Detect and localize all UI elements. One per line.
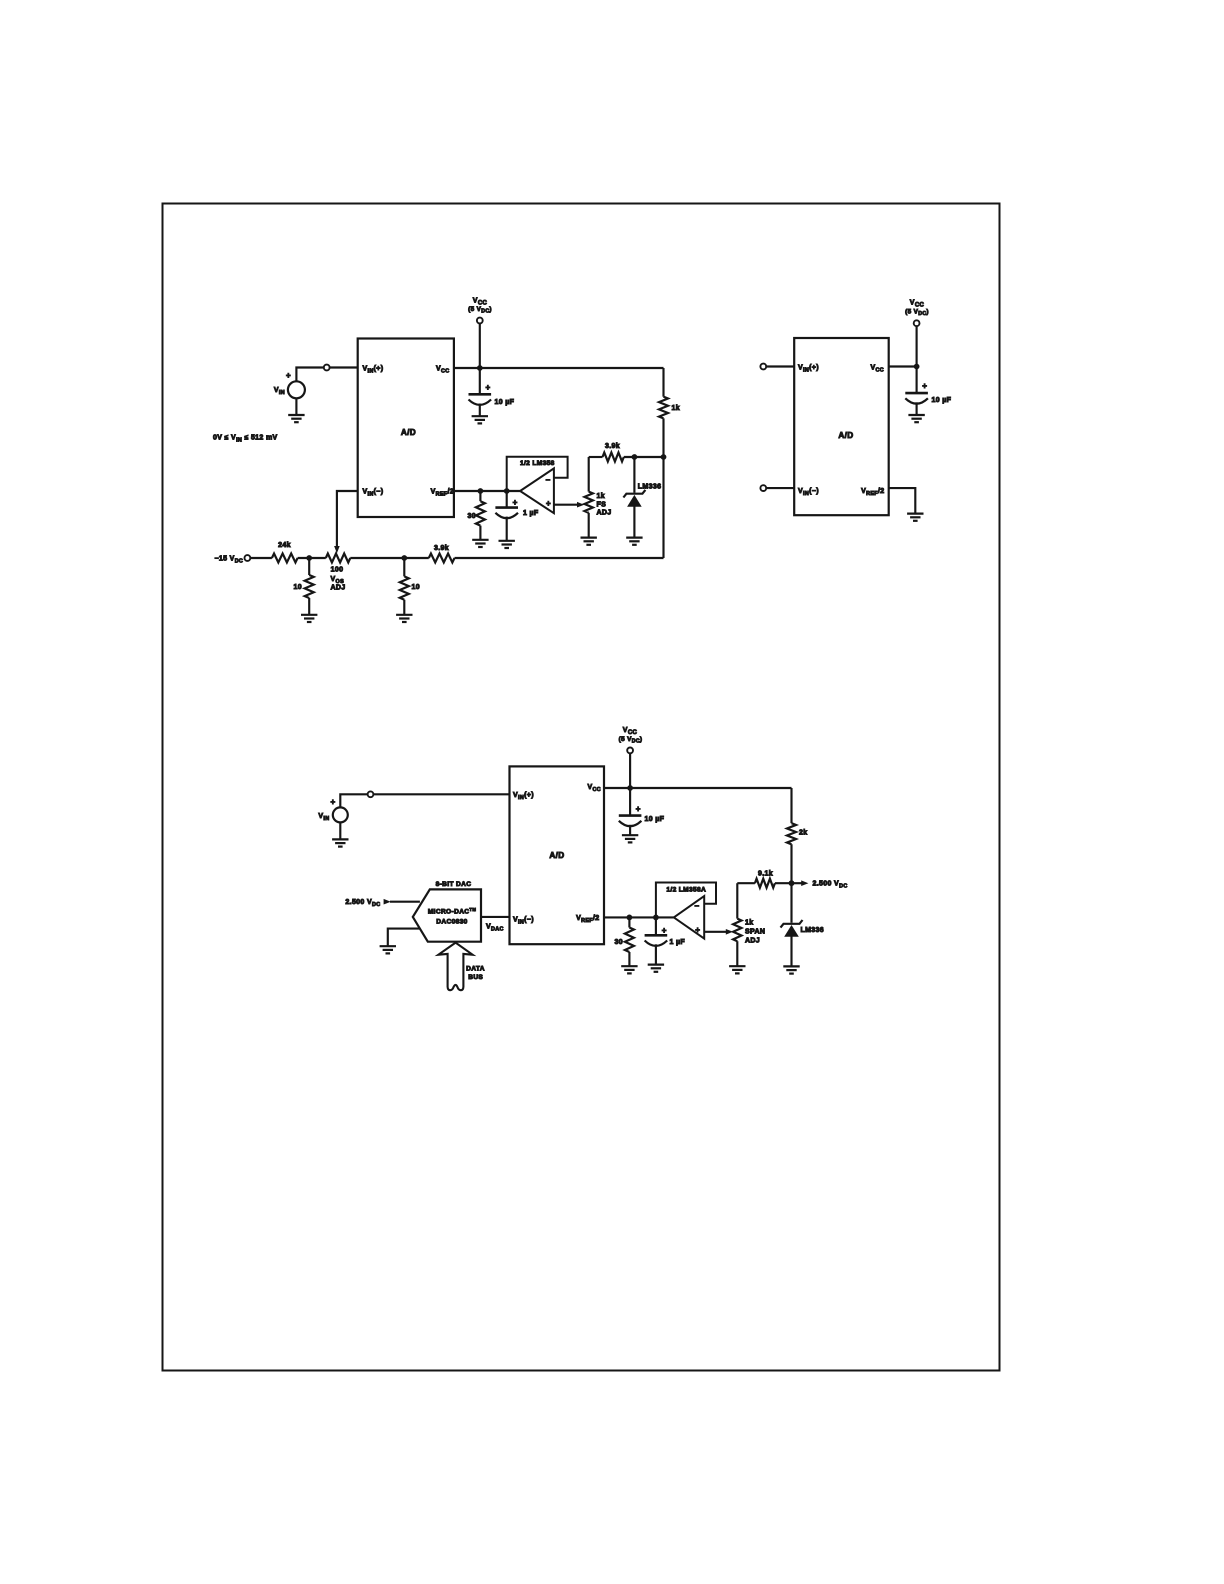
DATA BUS arrow [438,943,472,991]
wire source to ground (c3) [339,822,341,839]
A/D converter U1 (circuit 1) [358,339,454,518]
capacitor C5 1uF [655,917,657,935]
source VIN (circuit 1) [288,381,305,398]
source VIN (circuit 3) [333,807,348,822]
resistor R6 10 (left) [308,558,310,575]
svg-text:−: − [545,476,550,485]
ground below D1 [626,536,642,538]
ground below VIN source (c3) [332,838,348,840]
svg-text:DAC0830: DAC0830 [436,918,467,925]
svg-text:30: 30 [615,939,624,946]
svg-text:10 µF: 10 µF [645,816,665,823]
svg-text:3.9k: 3.9k [434,545,449,552]
svg-text:1/2 LM358: 1/2 LM358 [520,460,555,467]
svg-text:24k: 24k [278,542,291,549]
svg-text:MICRO-DACTM: MICRO-DACTM [428,907,477,915]
svg-text:+: + [286,371,291,380]
ground below R6 [301,614,317,616]
svg-text:ADJ: ADJ [331,584,346,591]
resistor R2 30 [479,491,481,501]
resistor R5 24k [272,554,298,563]
junction left 10-ohm node [306,555,312,561]
svg-text:DATA: DATA [466,966,485,973]
capacitor C1 10uF [469,393,492,396]
svg-text:LM336: LM336 [638,483,662,490]
wire VDAC to U4 VIN(-) [481,916,510,918]
wire VREF/2 to op-amp [454,490,520,492]
junction 2.500V node [789,880,795,886]
zener D2 LM336 [781,920,803,928]
wire U3 VIN(-) [766,487,794,489]
junction LM336 node [632,454,638,460]
wire source to ground [295,398,297,415]
U2 output wire to FS pot wiper [554,504,579,506]
U3 VIN(-) terminal [760,485,766,491]
svg-text:+: + [695,925,700,934]
bottom wire (circuit 1) [250,557,272,559]
wire FS node to rail [589,456,603,458]
svg-text:+: + [330,798,335,807]
ground below C5 [648,963,664,965]
U3 VIN(+) terminal [760,364,766,370]
op-amp U2 feedback box [507,457,568,491]
potentiometer R13 1k SPAN ADJ [736,883,738,918]
ground below R3 [581,536,597,538]
svg-text:10 µF: 10 µF [495,399,515,406]
junction VCC node (c3) [627,785,633,791]
svg-text:+: + [662,926,667,935]
svg-text:A/D: A/D [549,851,564,860]
ground below R8 [396,614,412,616]
DAC ground stub wire [388,929,420,947]
VCC terminal (circuit 3) [627,748,633,754]
wire VCC terminal down (c2) [916,326,918,393]
junction VCC/cap node [477,365,483,371]
junction 30-ohm node [478,488,484,494]
arrow to 2.500 VDC output [792,882,802,884]
svg-text:1/2 LM358A: 1/2 LM358A [666,887,706,894]
ground below C4 [622,834,638,836]
op-amp U5 1/2 LM358A triangle [674,896,704,939]
-15VDC terminal [245,555,251,561]
wire VCC terminal down (c3) [629,753,631,815]
svg-text:10: 10 [294,584,303,591]
wire terminal to U4 VIN(+) [373,793,509,795]
ground below R13 [729,965,745,967]
ground below C1 [472,415,488,417]
wire terminal to VIN(+) pin [330,366,358,368]
wire VCC terminal down [479,323,481,394]
arrow 2.500 VDC into DAC [384,899,391,905]
junction rail node [661,454,667,460]
svg-text:1k: 1k [745,919,754,926]
ground below C3 [908,414,924,416]
junction 30-ohm node (c3) [627,915,633,921]
page border frame [163,204,1000,1371]
resistor R4 3.9k (upper) [603,453,624,462]
svg-text:3.9k: 3.9k [605,443,620,450]
svg-text:8-BIT DAC: 8-BIT DAC [436,881,472,888]
potentiometer R3 1k FS ADJ [588,457,590,492]
junction right 10-ohm node [401,555,407,561]
zener D1 LM336 [633,457,635,493]
ground below D2 [783,965,799,967]
capacitor C2 1uF [506,491,508,508]
svg-text:LM336: LM336 [801,927,825,934]
wire U4 VCC pin to rail [604,787,792,789]
capacitor C3 10uF [905,392,928,395]
svg-text:1k: 1k [672,405,681,412]
VCC terminal (circuit 1) [477,318,483,324]
svg-text:+: + [636,804,641,813]
svg-text:10: 10 [412,584,421,591]
resistor R12 30 [628,917,630,927]
wire VIN(-) to VOS wiper [337,491,358,547]
svg-text:A/D: A/D [401,428,416,437]
right rail wire (circuit 1) [662,368,664,397]
ground below R12 [621,965,637,967]
ground below C2 [499,540,515,542]
svg-text:10 µF: 10 µF [932,397,952,404]
resistor R11 9.1k [737,882,755,884]
ground below R2 [472,539,488,541]
junction VCC node (c2) [914,364,920,370]
svg-text:BUS: BUS [468,974,483,981]
wire U3 VIN(+) [766,365,794,367]
U5 output wire to SPAN pot wiper [704,931,726,933]
ground below VREF/2 (c2) [907,512,923,514]
wire VCC pin to right rail [454,367,664,369]
wire U3 VREF/2 to ground [889,488,916,513]
input terminal circle (circuit 3) [368,791,374,797]
svg-text:30: 30 [468,513,477,520]
svg-text:SPAN: SPAN [745,928,765,935]
input terminal circle (circuit 1) [324,365,330,371]
svg-text:9.1k: 9.1k [758,871,773,878]
svg-text:2k: 2k [799,830,808,837]
svg-text:+: + [486,383,491,392]
svg-text:FS: FS [597,501,607,508]
potentiometer R7 100 VOS ADJ [326,554,351,563]
svg-text:1 µF: 1 µF [523,510,539,517]
junction 1uF/feedback node [504,488,510,494]
ground below DAC stub [380,945,396,947]
ground below VIN source [288,414,304,416]
svg-text:+: + [513,498,518,507]
svg-text:ADJ: ADJ [745,937,760,944]
wire terminal to source [296,368,323,382]
DAC U6 outline [413,889,481,941]
svg-text:1 µF: 1 µF [670,939,686,946]
resistor R9 3.9k (lower) [429,554,455,563]
svg-text:100: 100 [331,567,344,574]
wire U4 VREF/2 to op-amp [604,916,674,918]
A/D converter U3 (circuit 2) [794,338,889,515]
wire U3 VCC pin [889,365,917,367]
right rail (circuit 3) [790,788,792,823]
resistor R1 1k [659,397,668,419]
VCC terminal (circuit 2) [914,320,920,326]
svg-text:+: + [922,382,927,391]
svg-text:+: + [546,499,551,508]
junction 1uF node (c3) [653,915,659,921]
resistor R8 10 (right) [403,558,405,576]
svg-text:ADJ: ADJ [597,510,612,517]
svg-text:−: − [694,901,699,910]
op-amp U5 feedback box [656,883,716,918]
A/D converter U4 (circuit 3) [510,766,605,944]
resistor R10 2k [787,823,796,844]
svg-text:1k: 1k [597,493,606,500]
wire terminal to source (c3) [340,794,367,807]
svg-text:A/D: A/D [838,431,853,440]
op-amp U2 1/2 LM358 triangle [520,468,554,513]
capacitor C4 10uF [619,814,642,817]
